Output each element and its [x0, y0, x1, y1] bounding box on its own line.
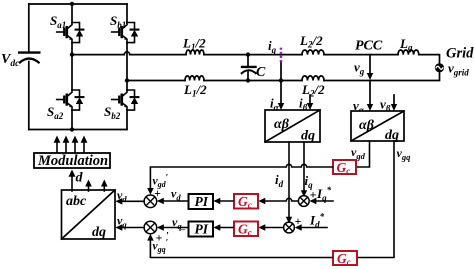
svg-text:abc: abc — [66, 194, 87, 209]
wire id vertical — [286, 142, 292, 224]
wire vgd feedforward to junction A — [147, 164, 332, 195]
node cap top — [246, 52, 250, 56]
transistor Sb1 — [112, 23, 139, 43]
wire leg A upper — [71, 4, 73, 23]
label vgq — [397, 146, 412, 162]
block alpha-beta/dq current — [265, 110, 320, 144]
svg-text:ig: ig — [268, 38, 277, 55]
wire top to grid — [419, 55, 440, 64]
inductor Lg — [398, 50, 419, 55]
wire vg arrow — [367, 55, 373, 80]
wire PCC segment top — [324, 54, 398, 56]
wire v-beta arrow — [391, 95, 397, 111]
label vd — [117, 188, 127, 204]
wire id error to Gc row2 — [259, 224, 284, 231]
label L2/2 upper — [299, 33, 323, 50]
wire phase B output — [127, 80, 185, 82]
wire bottom to grid — [324, 72, 440, 80]
wire i-beta arrow — [307, 95, 313, 110]
label vgd — [351, 145, 366, 161]
wire vgd output — [357, 141, 370, 167]
svg-text:id: id — [275, 172, 284, 189]
label prime B — [166, 231, 169, 242]
block abc/dq — [62, 190, 116, 240]
label vq underscore — [172, 215, 186, 231]
label Sb2 — [104, 104, 121, 121]
label plus iq — [310, 188, 317, 202]
svg-text:vd: vd — [117, 188, 127, 204]
svg-text:′: ′ — [166, 231, 169, 242]
label vq — [117, 214, 127, 230]
svg-text:d: d — [76, 171, 84, 186]
label Lg — [399, 36, 413, 53]
svg-text:PI: PI — [195, 194, 209, 209]
label Sa1 — [50, 13, 66, 30]
label C — [256, 65, 266, 80]
label vgrid — [448, 61, 469, 78]
block PI row2 — [189, 222, 214, 237]
node cap bottom — [246, 78, 250, 82]
svg-text:vq_: vq_ — [172, 215, 186, 231]
label Id* — [309, 212, 325, 230]
label id — [275, 172, 284, 189]
wire phase B to cap — [204, 80, 302, 82]
junction sum B — [144, 221, 157, 234]
wire leg B middle — [126, 43, 128, 90]
svg-text:Modulation: Modulation — [37, 153, 108, 169]
wire Gc2 to PI2 — [214, 224, 234, 231]
label vgq prime — [153, 237, 169, 254]
svg-text:+: + — [156, 231, 163, 245]
label Sb1 — [110, 13, 126, 30]
wire leg B upper — [126, 4, 128, 23]
svg-text:L1/2: L1/2 — [183, 82, 207, 99]
wire iq vertical — [301, 142, 307, 197]
svg-text:vg: vg — [354, 60, 365, 77]
node ig marker (dashed) — [280, 48, 283, 64]
label vgd prime — [153, 173, 169, 190]
svg-text:dq: dq — [385, 128, 399, 143]
wire Iq* reference arrow — [310, 198, 333, 204]
wire Id* reference arrow — [295, 224, 327, 231]
wire gate arrow 1 — [54, 136, 61, 153]
node i-alpha crossing — [279, 78, 283, 82]
svg-text:PI: PI — [195, 222, 209, 237]
label vd underscore — [171, 187, 185, 203]
label v-alpha — [353, 98, 365, 115]
wire stub arrow 3 — [101, 180, 108, 192]
wire gate arrow 4 — [81, 136, 88, 153]
svg-text:Sb2: Sb2 — [104, 104, 121, 121]
label plus A — [154, 186, 161, 200]
label v-beta — [380, 97, 391, 114]
wire junction B to abc block — [116, 224, 145, 231]
svg-text:αβ: αβ — [274, 117, 290, 132]
label Sa2 — [47, 104, 64, 121]
label plus id — [295, 214, 302, 228]
wire gate arrow 2 — [63, 136, 70, 153]
wire phase A output with crossover hop — [72, 52, 186, 55]
svg-text:L2/2: L2/2 — [301, 82, 325, 99]
block alpha-beta/dq voltage — [351, 111, 404, 143]
svg-text:C: C — [256, 65, 266, 80]
svg-text:Lg: Lg — [399, 36, 413, 53]
label iq — [305, 173, 314, 190]
wire v-alpha arrow — [367, 81, 373, 112]
svg-text:αβ: αβ — [359, 118, 375, 133]
svg-text:PCC: PCC — [355, 39, 383, 54]
svg-text:Sa2: Sa2 — [47, 104, 64, 121]
node leg A bottom — [70, 127, 74, 131]
block Modulation — [34, 153, 110, 169]
junction sum A — [144, 195, 157, 208]
wire left dc link — [28, 4, 30, 130]
svg-text:L1/2: L1/2 — [182, 36, 206, 53]
transistor Sa2 — [57, 90, 84, 110]
wire bottom dc rail — [29, 129, 127, 131]
svg-text:L2/2: L2/2 — [299, 33, 323, 50]
wire leg B lower — [126, 110, 128, 129]
wire PI1 to junction A — [157, 198, 188, 204]
block Gc vgq — [333, 251, 357, 267]
wire junction A to abc block — [116, 198, 145, 205]
svg-text:Vdc: Vdc — [1, 52, 20, 69]
wire d arrow to Modulation — [69, 170, 76, 192]
label L1/2 lower — [183, 82, 207, 99]
label PCC — [355, 39, 383, 54]
label i-alpha — [270, 96, 280, 113]
wire phase A to cap — [204, 54, 302, 56]
label plus B — [156, 231, 163, 245]
inductor L2/2 lower — [302, 76, 324, 81]
dc source Vdc — [19, 53, 39, 63]
wire gate arrow 3 — [72, 136, 79, 153]
capacitor C — [242, 55, 256, 81]
svg-text:vgq: vgq — [397, 146, 412, 162]
wire vgq output — [358, 141, 395, 258]
label Vdc — [1, 52, 20, 69]
wire leg A middle — [71, 43, 73, 90]
wire leg A lower — [71, 110, 73, 129]
block PI row1 — [189, 194, 214, 209]
label L2/2 lower — [301, 82, 325, 99]
inductor L1/2 upper — [186, 50, 204, 55]
svg-text:vgrid: vgrid — [448, 61, 469, 78]
grid source vgrid — [435, 63, 444, 72]
node leg B midpoint — [125, 78, 129, 82]
label Iq* — [316, 185, 332, 203]
transistor Sa1 — [57, 23, 84, 43]
svg-text:+: + — [154, 186, 161, 200]
label ig — [268, 38, 277, 55]
svg-text:vq: vq — [117, 214, 127, 230]
label L1/2 upper — [182, 36, 206, 53]
svg-text:dq: dq — [301, 129, 315, 144]
wire top dc rail — [29, 3, 127, 5]
node leg A top — [70, 2, 74, 6]
label vg — [354, 60, 365, 77]
block Gc row1 — [234, 194, 258, 210]
wire i-alpha tap — [278, 63, 284, 110]
transistor Sb2 — [112, 90, 139, 110]
inductor L2/2 upper — [302, 50, 324, 55]
label Grid — [446, 46, 474, 62]
svg-text:vgd: vgd — [351, 145, 366, 161]
wire iq error to Gc row1 — [259, 198, 299, 204]
wire vgq feedforward to junction B — [147, 234, 332, 258]
label d — [76, 171, 84, 186]
node leg A midpoint — [70, 52, 74, 56]
svg-text:Grid: Grid — [446, 46, 474, 62]
label i-beta — [299, 96, 308, 113]
wire PI2 to junction B — [157, 224, 188, 231]
wire Gc1 to PI1 — [214, 198, 234, 204]
svg-text:Sa1: Sa1 — [50, 13, 66, 30]
block Gc row2 — [234, 222, 258, 238]
svg-text:Sb1: Sb1 — [110, 13, 126, 30]
svg-text:dq: dq — [92, 225, 106, 240]
junction sum id — [284, 222, 295, 233]
wire stub arrow 2 — [85, 180, 92, 192]
svg-text:vd_: vd_ — [171, 187, 185, 203]
junction sum iq — [298, 196, 309, 207]
block Gc vgd — [333, 160, 356, 176]
inductor L1/2 lower — [185, 76, 204, 81]
